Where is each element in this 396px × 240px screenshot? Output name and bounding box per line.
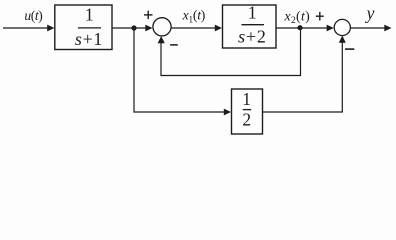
plus sign at S1 [144,11,153,20]
wire inner feedback from node x2 down-left-up to S1 [161,28,301,76]
node A junction dot after G1 [131,25,136,30]
arrowhead into S2 [327,25,334,32]
node x2 junction dot [297,25,302,30]
svg-text:y: y [365,3,375,23]
arrowhead into G3 [224,109,231,116]
summing junction S1 [153,18,171,36]
wire summing junction S1 to block G2 [171,27,216,29]
svg-text:1: 1 [248,2,257,22]
svg-text:1: 1 [242,89,251,109]
svg-text:1: 1 [85,5,94,25]
block G1 1/(s+1) [55,5,112,50]
wire output y from summing junction S2 [350,27,385,29]
wire block G3 output right and up to S2 [263,42,343,113]
svg-text:u(t): u(t) [24,8,42,23]
arrowhead output y [384,25,391,32]
svg-text:2: 2 [242,110,251,130]
arrowhead into G1 [47,25,54,32]
arrowhead outer feedback into S2 bottom [339,36,346,43]
wire block G2 output to summing junction S2 [276,27,328,29]
minus sign at S2 [345,48,354,50]
wire block G1 output to summing junction S1 [112,27,146,29]
svg-text:s+1: s+1 [75,29,103,49]
wire input u(t) to block G1 [3,27,48,29]
plus sign at S2 [316,12,324,21]
svg-text:s+2: s+2 [238,26,267,46]
summing junction S2 [334,19,350,35]
block G3 gain 1/2 [232,89,263,134]
arrowhead into S1 [145,25,152,32]
arrowhead into G2 [215,25,222,32]
wire outer feedback tap node A down to bottom rail [134,28,226,112]
block G2 1/(s+2) [223,2,277,48]
arrowhead inner feedback into S1 bottom [158,36,165,43]
minus sign at S1 [170,44,178,46]
